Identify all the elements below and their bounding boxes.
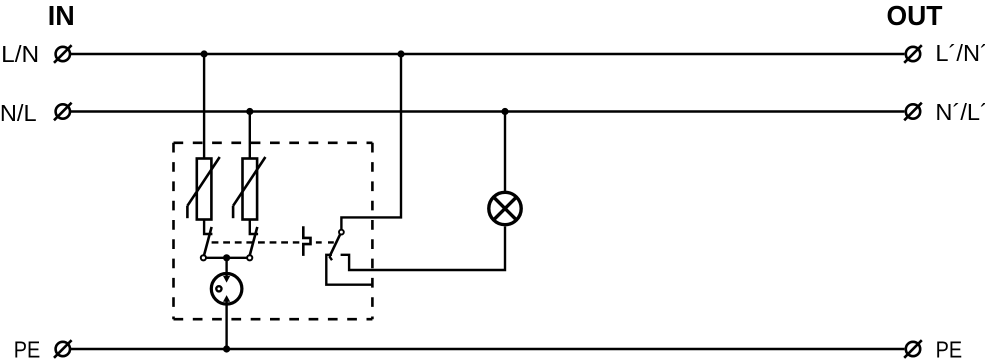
- lamp H1: [489, 192, 521, 224]
- spark gap F3 top electrode: [225, 258, 227, 277]
- disconnect switch F2 lead and fixed contact: [250, 220, 258, 235]
- wire PE line: [71, 348, 905, 350]
- terminal IN PE: [54, 340, 72, 358]
- disconnect switch F2 arm: [250, 227, 258, 256]
- wire N/L to lamp: [504, 112, 506, 193]
- disconnect switch F1 arm: [204, 227, 212, 256]
- svg-text:L´/N´: L´/N´: [935, 40, 985, 66]
- node junction to spark gap: [223, 254, 230, 261]
- node junction PE: [223, 345, 230, 352]
- terminal OUT N/L: [904, 103, 922, 121]
- node junction L/N varistor1: [201, 50, 208, 57]
- terminal OUT L/N: [904, 45, 922, 63]
- svg-text:N´/L´: N´/L´: [935, 99, 985, 125]
- svg-text:PE: PE: [936, 337, 963, 363]
- disconnect switch F1 contact circle: [201, 255, 206, 260]
- svg-text:N/L: N/L: [0, 100, 37, 126]
- wire from L/N to changeover switch: [341, 54, 401, 230]
- spark gap F3 bottom electrode: [225, 301, 227, 349]
- svg-text:IN: IN: [48, 0, 75, 31]
- thermal disconnect actuator: [303, 226, 310, 256]
- wire varistor2 top lead: [249, 112, 251, 160]
- wire L/N line: [71, 53, 905, 55]
- wire between disconnect contacts: [203, 257, 249, 259]
- disconnect switch F2 contact circle: [247, 255, 252, 260]
- wire N/L line: [71, 110, 905, 112]
- changeover switch S1 arm: [330, 234, 341, 256]
- node junction N/L varistor2: [246, 108, 253, 115]
- wire varistor1 top lead: [203, 54, 205, 159]
- enclosure dashed box: [174, 143, 373, 319]
- svg-text:OUT: OUT: [887, 0, 943, 31]
- changeover switch S1 arm foot: [329, 256, 332, 260]
- terminal OUT PE: [904, 340, 922, 358]
- node junction L/N right: [397, 50, 404, 57]
- terminal IN L/N: [54, 45, 72, 63]
- changeover switch S1 pivot: [339, 230, 344, 235]
- changeover switch S1 left contact and wire to enclosure: [326, 255, 372, 285]
- mechanical linkage dashed: [212, 241, 300, 243]
- svg-text:PE: PE: [14, 337, 41, 363]
- spark gap F3 body: [211, 274, 242, 305]
- mechanical linkage dashed right: [316, 241, 334, 243]
- disconnect switch F1 lead and fixed contact: [204, 220, 212, 235]
- node junction N/L lamp: [501, 108, 508, 115]
- svg-text:L/N: L/N: [1, 41, 39, 67]
- spark gap F3 gas dot: [216, 286, 221, 291]
- varistor RV2: [233, 157, 265, 220]
- varistor RV1: [187, 157, 219, 220]
- terminal IN N/L: [54, 103, 72, 121]
- changeover switch S1 right contact and wire to lamp: [341, 227, 505, 271]
